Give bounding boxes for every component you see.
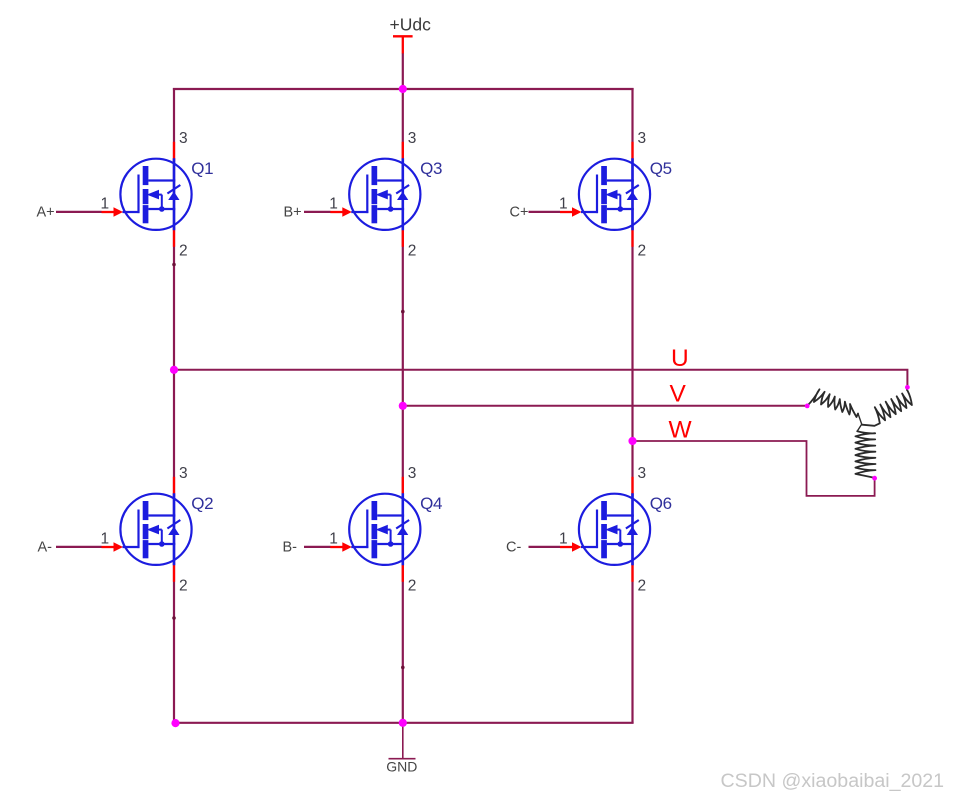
svg-text:B-: B- — [283, 539, 298, 555]
transistor Q3 (N-MOSFET with body diode) — [330, 142, 420, 247]
junction GND bus — [399, 719, 407, 727]
junction node U at left leg — [170, 366, 178, 374]
wire joint dot 1 — [172, 263, 176, 267]
svg-text:3: 3 — [638, 465, 647, 482]
svg-text:GND: GND — [386, 759, 417, 775]
motor coil U (top-right spring) — [862, 388, 912, 426]
svg-text:3: 3 — [408, 130, 417, 147]
wire gate net C- — [529, 546, 561, 548]
wire phase V line — [403, 405, 807, 407]
svg-text:1: 1 — [101, 531, 110, 548]
junction +Udc bus — [399, 85, 407, 93]
svg-text:1: 1 — [101, 196, 110, 213]
svg-text:Q1: Q1 — [191, 159, 213, 178]
svg-text:W: W — [669, 417, 693, 444]
terminal dot coil W — [872, 476, 877, 481]
svg-text:CSDN @xiaobaibai_2021: CSDN @xiaobaibai_2021 — [721, 770, 945, 792]
motor coil V (left spring) — [807, 389, 858, 417]
svg-text:1: 1 — [559, 531, 568, 548]
svg-text:+Udc: +Udc — [390, 14, 432, 34]
wire middle leg (Q3/Q4 column x=403) — [402, 88, 404, 723]
transistor Q1 (N-MOSFET with body diode) — [102, 142, 192, 247]
wire gate net A- — [56, 546, 102, 548]
svg-text:Q4: Q4 — [420, 494, 442, 513]
svg-text:2: 2 — [408, 242, 417, 259]
wire gate net C+ — [529, 211, 561, 213]
wire left leg (Q1/Q2 column x=174) — [173, 88, 175, 723]
svg-text:Q6: Q6 — [650, 494, 672, 513]
wire gate net B- — [304, 546, 331, 548]
svg-text:V: V — [670, 381, 687, 408]
wire right leg (Q5/Q6 column x=632.5) — [631, 88, 633, 723]
svg-text:1: 1 — [559, 196, 568, 213]
wire phase U line — [174, 370, 907, 388]
ground GND symbol — [389, 723, 416, 759]
svg-text:C-: C- — [506, 539, 521, 555]
svg-text:2: 2 — [179, 242, 188, 259]
svg-text:3: 3 — [408, 465, 417, 482]
junction node W at right leg — [628, 437, 636, 445]
wire joint dot 2 — [401, 310, 405, 314]
svg-text:A+: A+ — [37, 204, 55, 220]
motor coil W (bottom spring) — [855, 431, 875, 477]
svg-text:1: 1 — [329, 196, 338, 213]
power +Udc symbol — [393, 36, 413, 53]
terminal dot coil V — [805, 404, 810, 409]
svg-text:A-: A- — [38, 539, 53, 555]
svg-text:2: 2 — [638, 242, 647, 259]
transistor Q4 (N-MOSFET with body diode) — [330, 477, 420, 582]
wire bottom bus rail GND net — [174, 722, 634, 724]
junction node V at middle leg — [399, 402, 407, 410]
svg-text:3: 3 — [179, 465, 188, 482]
wire top bus rail +Udc net — [173, 88, 634, 90]
svg-text:2: 2 — [638, 577, 647, 594]
svg-text:2: 2 — [179, 577, 188, 594]
svg-text:U: U — [671, 345, 689, 372]
wire phase W line — [633, 441, 875, 496]
wire +Udc stem — [402, 53, 404, 89]
motor star point links — [857, 414, 862, 432]
svg-text:Q2: Q2 — [191, 494, 213, 513]
wire joint dot 3 — [172, 616, 176, 620]
svg-text:C+: C+ — [510, 204, 529, 220]
wire joint dot 4 — [401, 666, 405, 670]
svg-text:Q3: Q3 — [420, 159, 442, 178]
transistor Q5 (N-MOSFET with body diode) — [560, 142, 650, 247]
svg-text:3: 3 — [638, 130, 647, 147]
svg-text:1: 1 — [329, 531, 338, 548]
junction bottom-left corner — [171, 719, 179, 727]
transistor Q2 (N-MOSFET with body diode) — [102, 477, 192, 582]
terminal dot coil U — [905, 385, 910, 390]
svg-text:Q5: Q5 — [650, 159, 672, 178]
wire gate net B+ — [304, 211, 331, 213]
svg-text:3: 3 — [179, 130, 188, 147]
svg-text:2: 2 — [408, 577, 417, 594]
wire gate net A+ — [56, 211, 102, 213]
transistor Q6 (N-MOSFET with body diode) — [560, 477, 650, 582]
svg-text:B+: B+ — [284, 204, 302, 220]
